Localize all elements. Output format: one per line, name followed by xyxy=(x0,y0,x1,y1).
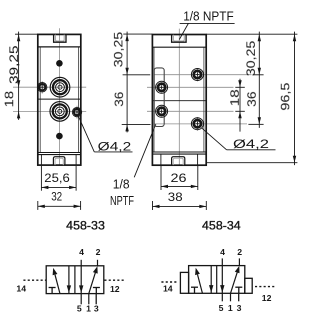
pilot dot lower xyxy=(56,133,63,140)
bottom port notch 458-34 xyxy=(172,157,185,165)
dimension 39,25 xyxy=(9,32,38,120)
right box 1-2 diagonal right symbol xyxy=(231,266,240,301)
svg-text:1: 1 xyxy=(228,303,233,313)
base inset walls 458-33 xyxy=(41,155,76,166)
top port notch 458-33 xyxy=(54,34,66,42)
bolt hole top right xyxy=(191,69,203,81)
left box flow arrow diagonal xyxy=(53,268,60,294)
svg-text:1/8: 1/8 xyxy=(113,177,130,191)
right box 4-5 line right symbol xyxy=(220,258,224,301)
symbol frame left xyxy=(46,266,104,294)
bottom port notch 458-33 xyxy=(53,157,65,165)
right box blocked port 3 T right symbol xyxy=(235,287,242,301)
svg-text:12: 12 xyxy=(262,293,272,303)
side gasket channel xyxy=(154,68,164,127)
right box 4-5 line with arrow xyxy=(79,260,83,305)
dimension 38 xyxy=(153,192,207,210)
bolt hole row2 right xyxy=(72,107,81,116)
centerline vertical 458-34 xyxy=(178,29,180,166)
centerline left row B xyxy=(147,86,234,88)
dimension 36 (middle stack) xyxy=(114,92,150,132)
centerline row2 xyxy=(13,110,86,112)
divider xyxy=(74,266,76,294)
dimension 18 (right drawing) xyxy=(230,79,245,132)
svg-text:1/8 NPTF: 1/8 NPTF xyxy=(183,10,234,24)
body 458-34 xyxy=(152,35,206,166)
svg-text:458-33: 458-33 xyxy=(66,218,105,232)
port 2 stub xyxy=(97,260,99,266)
bolt hole row1 left xyxy=(38,83,47,92)
right pilot tab xyxy=(245,278,252,293)
leader Ø4,2 left xyxy=(79,117,133,152)
leader 1/8 NPTF bottom xyxy=(134,124,156,177)
left box blocked port T xyxy=(49,288,56,294)
symbol frame right xyxy=(189,266,245,294)
svg-text:5: 5 xyxy=(219,303,224,313)
left box T right symbol xyxy=(191,287,198,293)
top port notch 458-34 xyxy=(172,35,187,43)
dimension 26 xyxy=(161,166,198,190)
svg-text:3: 3 xyxy=(237,303,242,313)
svg-text:3: 3 xyxy=(94,303,99,313)
svg-text:14: 14 xyxy=(163,284,173,294)
svg-text:2: 2 xyxy=(237,247,242,257)
dimension 25,6 xyxy=(41,166,76,191)
svg-text:2: 2 xyxy=(96,247,101,257)
dimension 30,25 (right stack) xyxy=(246,32,264,128)
svg-text:458-34: 458-34 xyxy=(202,219,241,233)
centerline left row C xyxy=(147,110,234,112)
pilot line 14 left xyxy=(23,279,45,281)
svg-text:30,25: 30,25 xyxy=(246,41,258,77)
bolt hole left lower xyxy=(156,105,168,117)
dimension 96,5 xyxy=(206,32,297,166)
svg-text:18: 18 xyxy=(4,91,16,108)
port labels left symbol xyxy=(16,247,119,313)
svg-text:5: 5 xyxy=(77,303,82,313)
pilot line 12 right xyxy=(104,279,125,281)
crosshair small port row1 xyxy=(41,81,43,93)
svg-text:Ø4,2: Ø4,2 xyxy=(98,139,132,153)
port labels right symbol xyxy=(163,247,272,313)
svg-text:NPTF: NPTF xyxy=(110,194,134,208)
svg-text:4: 4 xyxy=(79,247,84,257)
left pilot tab xyxy=(180,272,188,293)
leader Ø4,2 right xyxy=(202,128,276,150)
left box down arrow right symbol xyxy=(209,266,213,294)
svg-text:30,25: 30,25 xyxy=(113,32,125,68)
port circle row1 big xyxy=(50,77,70,97)
svg-text:18: 18 xyxy=(230,89,242,106)
svg-text:12: 12 xyxy=(110,284,120,294)
centerline row1 xyxy=(13,86,86,88)
svg-text:1: 1 xyxy=(86,303,91,313)
crosshair verticals right drawing xyxy=(196,68,198,131)
left box exhaust arrow down xyxy=(67,266,71,294)
pilot line 12 right symbol xyxy=(255,286,276,288)
svg-text:38: 38 xyxy=(168,192,183,204)
base inset walls 458-34 xyxy=(161,154,198,165)
dimension 36 (right stack) xyxy=(247,91,264,124)
svg-text:36: 36 xyxy=(114,92,126,107)
crosshair small port row2 xyxy=(76,106,78,119)
dimension 18 (left) xyxy=(4,91,20,119)
svg-text:36: 36 xyxy=(247,91,259,107)
centerline vertical 458-33 xyxy=(58,28,60,165)
right box 1-2 diagonal arrow xyxy=(89,266,98,304)
dimension 30,25 (middle stack) xyxy=(113,32,152,133)
svg-text:96,5: 96,5 xyxy=(278,82,292,110)
port circle row2 big xyxy=(50,102,70,122)
svg-text:25,6: 25,6 xyxy=(44,173,70,185)
divider right symbol xyxy=(216,266,218,294)
svg-text:32: 32 xyxy=(51,192,62,204)
left box diagonal arrow right symbol xyxy=(195,268,202,293)
centerline right row D xyxy=(154,123,247,125)
svg-text:39,25: 39,25 xyxy=(9,46,21,85)
svg-text:Ø4,2: Ø4,2 xyxy=(233,137,269,151)
port 2 stub right symbol xyxy=(238,258,240,265)
bolt hole bottom right xyxy=(191,118,203,130)
svg-text:26: 26 xyxy=(171,173,187,185)
dimension 32 xyxy=(38,192,81,210)
label 1/8 NPTF bottom xyxy=(110,177,134,208)
svg-text:14: 14 xyxy=(16,283,26,293)
svg-text:4: 4 xyxy=(220,247,225,257)
body 458-33 xyxy=(38,34,81,165)
label 1/8 NPTF top xyxy=(179,10,234,40)
centerline right row A xyxy=(154,74,252,76)
pilot line 14 right symbol xyxy=(161,281,177,283)
pilot dot upper xyxy=(56,60,63,67)
bolt hole left upper xyxy=(156,81,168,93)
right box blocked port 3 T xyxy=(93,288,100,305)
